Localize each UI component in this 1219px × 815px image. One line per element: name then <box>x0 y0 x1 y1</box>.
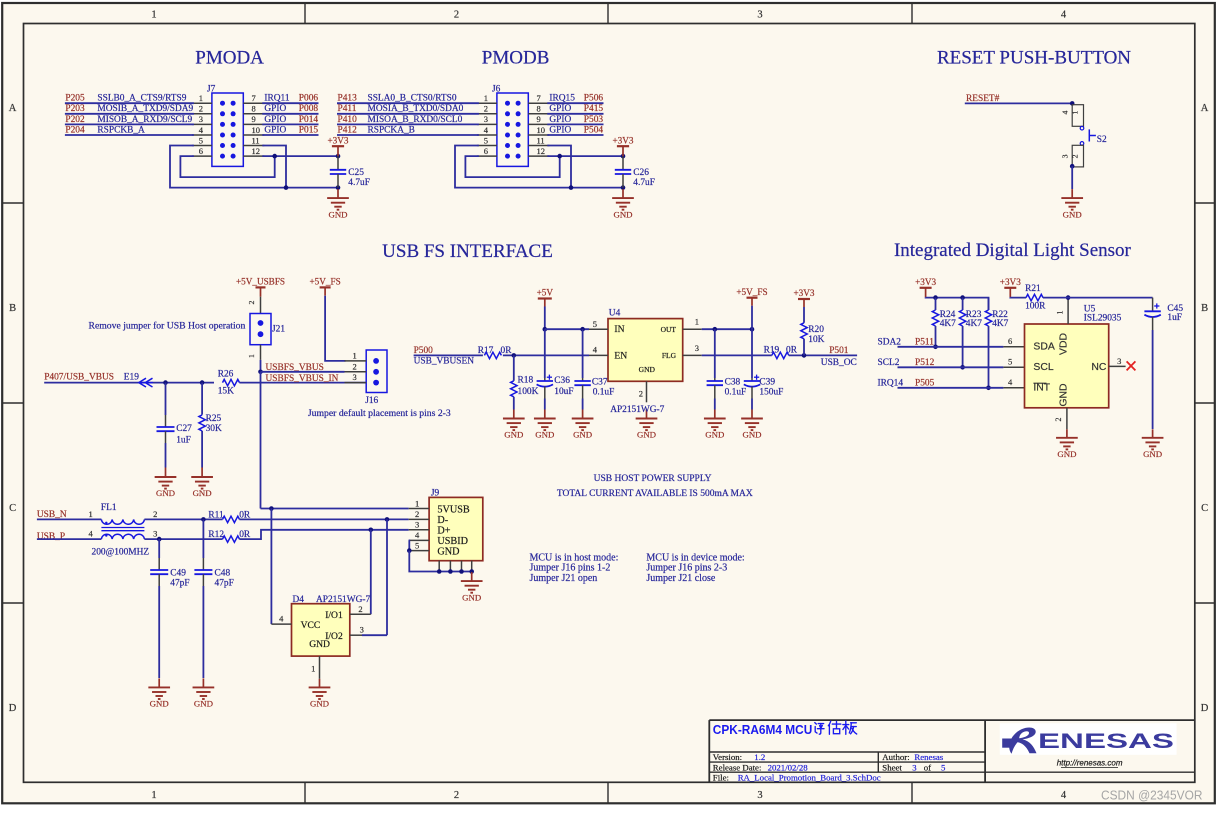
svg-text:P505: P505 <box>915 378 935 388</box>
svg-text:P202: P202 <box>65 115 85 125</box>
svg-text:3: 3 <box>757 10 762 21</box>
svg-text:7: 7 <box>537 93 541 103</box>
svg-text:P205: P205 <box>65 94 85 104</box>
svg-text:+5V_FS: +5V_FS <box>309 277 340 287</box>
svg-text:MISOA_B_RXD0/SCL0: MISOA_B_RXD0/SCL0 <box>368 115 463 125</box>
svg-text:R26: R26 <box>218 369 234 379</box>
svg-text:100R: 100R <box>1025 302 1046 312</box>
svg-text:1: 1 <box>247 354 256 358</box>
svg-text:J21: J21 <box>272 324 285 334</box>
svg-text:5: 5 <box>484 135 488 145</box>
svg-text:7: 7 <box>252 93 256 103</box>
svg-text:TOTAL CURRENT AVAILABLE IS 500: TOTAL CURRENT AVAILABLE IS 500mA MAX <box>557 489 753 499</box>
svg-text:P500: P500 <box>414 346 434 356</box>
svg-text:GND: GND <box>1057 449 1076 459</box>
svg-text:VDD: VDD <box>1058 333 1069 355</box>
svg-text:Integrated Digital Light Senso: Integrated Digital Light Sensor <box>894 240 1132 261</box>
svg-text:2: 2 <box>1071 154 1080 158</box>
svg-text:3: 3 <box>1061 154 1070 158</box>
svg-text:1: 1 <box>199 93 203 103</box>
svg-text:3: 3 <box>415 520 419 530</box>
svg-text:R19: R19 <box>764 345 780 355</box>
svg-text:http://renesas.com: http://renesas.com <box>1057 759 1123 768</box>
svg-text:IN: IN <box>614 324 624 335</box>
svg-text:GND: GND <box>504 430 523 440</box>
svg-text:4: 4 <box>89 529 94 539</box>
svg-text:AP2151WG-7: AP2151WG-7 <box>610 405 664 415</box>
svg-text:R21: R21 <box>1025 284 1041 294</box>
svg-text:USB_OC: USB_OC <box>821 358 857 368</box>
svg-text:C48: C48 <box>215 568 231 578</box>
svg-text:IRQ15: IRQ15 <box>549 94 575 104</box>
svg-text:1: 1 <box>311 664 315 674</box>
svg-text:10: 10 <box>537 125 546 135</box>
svg-text:5VUSB: 5VUSB <box>437 504 469 515</box>
svg-text:NC: NC <box>1091 362 1107 373</box>
svg-text:OUT: OUT <box>661 325 677 334</box>
svg-text:11: 11 <box>537 135 545 145</box>
svg-text:GND: GND <box>573 430 592 440</box>
svg-text:I/O1: I/O1 <box>325 610 343 621</box>
svg-text:4: 4 <box>1008 377 1013 387</box>
svg-text:PMODA: PMODA <box>195 47 264 68</box>
svg-text:GPIO: GPIO <box>264 104 286 114</box>
svg-text:GND: GND <box>613 209 632 219</box>
svg-text:GND: GND <box>742 430 761 440</box>
svg-text:47pF: 47pF <box>215 578 234 588</box>
svg-text:P410: P410 <box>338 115 358 125</box>
svg-text:GPIO: GPIO <box>549 115 571 125</box>
svg-text:MISOB_A_RXD9/SCL9: MISOB_A_RXD9/SCL9 <box>97 115 192 125</box>
svg-text:+5V: +5V <box>537 288 554 298</box>
svg-text:P504: P504 <box>584 125 604 135</box>
svg-text:D+: D+ <box>437 526 450 537</box>
svg-text:2: 2 <box>358 604 362 614</box>
svg-text:IRQ11: IRQ11 <box>264 94 289 104</box>
svg-text:Author:: Author: <box>882 752 909 762</box>
svg-text:1uF: 1uF <box>1167 313 1182 323</box>
svg-text:GND: GND <box>310 699 329 709</box>
svg-text:P204: P204 <box>65 125 85 135</box>
svg-text:P501: P501 <box>829 346 849 356</box>
svg-text:USB HOST POWER SUPPLY: USB HOST POWER SUPPLY <box>594 474 712 484</box>
svg-text:C27: C27 <box>176 424 192 434</box>
svg-text:P511: P511 <box>915 337 934 347</box>
svg-text:C: C <box>1201 503 1208 514</box>
svg-text:0.1uF: 0.1uF <box>593 387 615 397</box>
svg-text:C36: C36 <box>554 376 570 386</box>
svg-text:3: 3 <box>199 114 203 124</box>
svg-text:Sheet: Sheet <box>882 762 902 772</box>
svg-text:2: 2 <box>153 509 157 519</box>
svg-text:30K: 30K <box>206 424 222 434</box>
svg-text:6: 6 <box>1008 336 1012 346</box>
svg-text:1: 1 <box>353 351 357 361</box>
svg-text:3: 3 <box>353 372 357 382</box>
svg-text:9: 9 <box>252 114 256 124</box>
svg-text:Jumper J21 close: Jumper J21 close <box>646 573 715 584</box>
svg-text:USBFS_VBUS_IN: USBFS_VBUS_IN <box>266 374 339 384</box>
svg-text:4: 4 <box>1061 790 1067 801</box>
svg-text:12: 12 <box>252 146 261 156</box>
svg-text:11: 11 <box>252 135 260 145</box>
svg-text:0R: 0R <box>501 346 513 356</box>
svg-text:3: 3 <box>695 343 699 353</box>
svg-text:GPIO: GPIO <box>264 115 286 125</box>
svg-text:2021/02/28: 2021/02/28 <box>768 762 809 772</box>
svg-text:+3V3: +3V3 <box>612 135 633 145</box>
svg-text:5: 5 <box>199 135 203 145</box>
svg-text:RA_Local_Promotion_Board_3.Sch: RA_Local_Promotion_Board_3.SchDoc <box>738 773 881 783</box>
svg-text:3: 3 <box>360 625 364 635</box>
svg-text:+3V3: +3V3 <box>327 135 348 145</box>
svg-text:12: 12 <box>537 146 546 156</box>
svg-text:A: A <box>9 103 17 114</box>
svg-text:GND: GND <box>328 209 347 219</box>
svg-text:R20: R20 <box>808 325 824 335</box>
svg-text:USB_VBUSEN: USB_VBUSEN <box>414 357 475 367</box>
svg-text:SSLB0_A_CTS9/RTS9: SSLB0_A_CTS9/RTS9 <box>97 94 186 104</box>
svg-text:GPIO: GPIO <box>549 125 571 135</box>
svg-text:RESET PUSH-BUTTON: RESET PUSH-BUTTON <box>937 48 1131 69</box>
svg-text:D: D <box>9 703 17 714</box>
svg-text:Version:: Version: <box>713 752 742 762</box>
svg-text:2: 2 <box>415 509 419 519</box>
svg-text:3: 3 <box>757 790 762 801</box>
svg-text:RSPCKA_B: RSPCKA_B <box>368 125 415 135</box>
svg-text:R18: R18 <box>518 375 534 385</box>
svg-text:CSDN @2345VOR: CSDN @2345VOR <box>1101 787 1203 802</box>
svg-text:5: 5 <box>415 540 419 550</box>
svg-text:of: of <box>924 762 931 772</box>
svg-text:GND: GND <box>637 430 656 440</box>
svg-text:P506: P506 <box>584 94 604 104</box>
svg-text:R11: R11 <box>208 510 224 520</box>
svg-text:P412: P412 <box>338 125 358 135</box>
svg-text:CPK-RA6M4 MCU: CPK-RA6M4 MCU <box>713 722 813 737</box>
svg-text:1: 1 <box>695 317 699 327</box>
svg-text:4: 4 <box>279 614 284 624</box>
svg-text:100K: 100K <box>518 387 539 397</box>
svg-text:GND: GND <box>156 488 175 498</box>
svg-text:D: D <box>1201 703 1209 714</box>
svg-text:R25: R25 <box>206 414 222 424</box>
svg-text:9: 9 <box>537 114 541 124</box>
svg-text:E19: E19 <box>124 373 139 383</box>
svg-text:+5V_FS: +5V_FS <box>736 287 767 297</box>
svg-text:1: 1 <box>415 498 419 508</box>
svg-text:FLG: FLG <box>662 351 677 360</box>
svg-text:ENESAS: ENESAS <box>1038 729 1174 753</box>
svg-text:4.7uF: 4.7uF <box>633 178 655 188</box>
svg-text:1: 1 <box>1055 311 1064 315</box>
svg-text:GND: GND <box>437 546 459 557</box>
svg-text:4K7: 4K7 <box>966 319 982 329</box>
svg-text:1: 1 <box>1071 110 1080 114</box>
svg-text:4: 4 <box>1061 10 1067 21</box>
svg-text:C25: C25 <box>348 168 364 178</box>
svg-text:SCL: SCL <box>1033 362 1053 373</box>
svg-text:P015: P015 <box>299 125 319 135</box>
svg-text:GND: GND <box>705 430 724 440</box>
svg-text:+3V3: +3V3 <box>1000 277 1021 287</box>
svg-text:B: B <box>9 303 16 314</box>
svg-text:2: 2 <box>247 300 256 304</box>
svg-text:VCC: VCC <box>301 620 321 631</box>
svg-text:10uF: 10uF <box>554 387 573 397</box>
svg-text:P008: P008 <box>299 104 319 114</box>
svg-text:Remove jumper for USB Host ope: Remove jumper for USB Host operation <box>89 321 246 332</box>
svg-text:GPIO: GPIO <box>264 125 286 135</box>
svg-text:5: 5 <box>941 762 946 772</box>
svg-text:150uF: 150uF <box>759 387 783 397</box>
svg-text:P503: P503 <box>584 115 604 125</box>
svg-text:P411: P411 <box>338 104 357 114</box>
svg-text:200@100MHZ: 200@100MHZ <box>92 548 150 558</box>
svg-text:EN: EN <box>614 350 627 361</box>
svg-text:INT: INT <box>1033 383 1050 394</box>
svg-text:J7: J7 <box>207 84 216 94</box>
svg-text:C26: C26 <box>633 168 649 178</box>
svg-text:2: 2 <box>484 104 488 114</box>
svg-text:GND: GND <box>462 592 481 602</box>
svg-text:4K7: 4K7 <box>940 319 956 329</box>
svg-text:Renesas: Renesas <box>914 752 943 762</box>
svg-text:C39: C39 <box>759 377 775 387</box>
svg-text:P413: P413 <box>338 94 358 104</box>
svg-text:GND: GND <box>309 639 330 650</box>
svg-text:3: 3 <box>1117 356 1121 366</box>
svg-text:SSLA0_B_CTS0/RTS0: SSLA0_B_CTS0/RTS0 <box>368 94 457 104</box>
svg-text:GND: GND <box>193 488 212 498</box>
svg-text:10K: 10K <box>808 335 824 345</box>
svg-text:S2: S2 <box>1097 135 1107 145</box>
svg-text:Release Date:: Release Date: <box>713 762 762 772</box>
svg-text:6: 6 <box>199 146 203 156</box>
svg-text:GND: GND <box>150 699 169 709</box>
svg-text:GND: GND <box>194 699 213 709</box>
svg-text:P407/USB_VBUS: P407/USB_VBUS <box>44 373 114 383</box>
svg-text:2: 2 <box>639 389 643 399</box>
svg-text:47pF: 47pF <box>170 578 189 588</box>
svg-text:+3V3: +3V3 <box>793 288 814 298</box>
svg-text:USB FS INTERFACE: USB FS INTERFACE <box>382 241 553 262</box>
svg-text:15K: 15K <box>218 387 234 397</box>
svg-text:P415: P415 <box>584 104 604 114</box>
svg-text:1uF: 1uF <box>176 435 191 445</box>
svg-text:5: 5 <box>593 319 597 329</box>
svg-text:D-: D- <box>437 515 448 526</box>
svg-text:+3V3: +3V3 <box>915 277 936 287</box>
svg-text:3: 3 <box>912 762 917 772</box>
svg-text:D4: D4 <box>293 595 305 605</box>
svg-text:Jumper J21 open: Jumper J21 open <box>530 573 598 584</box>
svg-text:1: 1 <box>151 10 156 21</box>
svg-text:MOSIA_B_TXD0/SDA0: MOSIA_B_TXD0/SDA0 <box>368 104 464 114</box>
svg-text:GND: GND <box>535 430 554 440</box>
svg-text:C49: C49 <box>170 568 186 578</box>
svg-text:P014: P014 <box>299 115 319 125</box>
svg-text:P203: P203 <box>65 104 85 114</box>
svg-text:P006: P006 <box>299 94 319 104</box>
svg-text:C: C <box>9 503 16 514</box>
svg-text:GND: GND <box>639 365 656 374</box>
svg-text:1.2: 1.2 <box>754 752 765 762</box>
svg-text:SCL2: SCL2 <box>878 358 900 368</box>
svg-text:2: 2 <box>1054 418 1063 422</box>
svg-text:5: 5 <box>1008 357 1012 367</box>
svg-text:J9: J9 <box>431 488 440 498</box>
svg-text:4.7uF: 4.7uF <box>348 178 370 188</box>
svg-text:3: 3 <box>484 114 488 124</box>
svg-text:File:: File: <box>713 773 729 783</box>
svg-text:4: 4 <box>1061 110 1070 114</box>
svg-text:0.1uF: 0.1uF <box>725 387 747 397</box>
svg-text:IRQ14: IRQ14 <box>878 378 904 388</box>
svg-text:C37: C37 <box>592 377 608 387</box>
svg-text:C38: C38 <box>725 377 741 387</box>
svg-text:2: 2 <box>454 790 459 801</box>
svg-text:4K7: 4K7 <box>992 319 1008 329</box>
svg-text:GND: GND <box>1143 449 1162 459</box>
svg-text:A: A <box>1201 103 1209 114</box>
svg-text:ISL29035: ISL29035 <box>1084 313 1122 323</box>
svg-text:2: 2 <box>353 361 357 371</box>
svg-text:U4: U4 <box>609 308 621 318</box>
svg-text:USB_P: USB_P <box>37 532 65 542</box>
svg-text:Jumper default placement is pi: Jumper default placement is pins 2-3 <box>308 408 451 419</box>
svg-text:1: 1 <box>89 509 93 519</box>
svg-text:4: 4 <box>415 530 420 540</box>
svg-text:+5V_USBFS: +5V_USBFS <box>236 277 285 287</box>
svg-text:FL1: FL1 <box>101 503 117 513</box>
svg-text:J16: J16 <box>365 396 378 406</box>
svg-text:10: 10 <box>252 125 261 135</box>
svg-text:J6: J6 <box>492 84 501 94</box>
svg-text:B: B <box>1201 303 1208 314</box>
svg-text:2: 2 <box>454 10 459 21</box>
svg-text:1: 1 <box>151 790 156 801</box>
svg-text:8: 8 <box>252 104 256 114</box>
svg-text:RSPCKB_A: RSPCKB_A <box>97 125 145 135</box>
svg-text:8: 8 <box>537 104 541 114</box>
svg-text:GPIO: GPIO <box>549 104 571 114</box>
svg-text:6: 6 <box>484 146 488 156</box>
svg-text:3: 3 <box>153 529 157 539</box>
svg-text:P512: P512 <box>915 358 935 368</box>
svg-text:MOSIB_A_TXD9/SDA9: MOSIB_A_TXD9/SDA9 <box>97 104 193 114</box>
svg-text:SDA2: SDA2 <box>878 337 902 347</box>
svg-text:2: 2 <box>199 104 203 114</box>
svg-text:GND: GND <box>1063 209 1082 219</box>
svg-text:1: 1 <box>484 93 488 103</box>
svg-text:GND: GND <box>1058 383 1069 406</box>
svg-text:SDA: SDA <box>1033 342 1054 353</box>
svg-text:PMODB: PMODB <box>482 47 550 68</box>
